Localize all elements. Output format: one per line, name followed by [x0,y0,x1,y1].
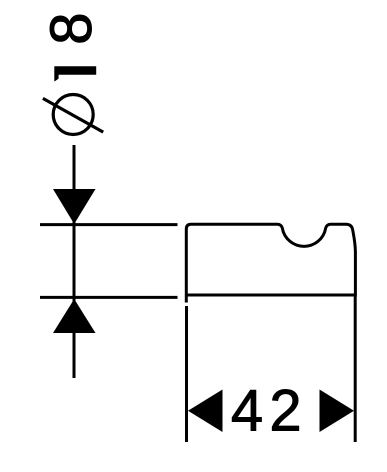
hook body outline [186,224,355,301]
arrow right [320,390,355,433]
diameter symbol slash [43,98,103,132]
vertical dimension line [73,145,76,378]
extension line left of 42 dim [185,306,188,442]
arrow up [53,299,96,333]
svg-text:2: 2 [269,379,301,444]
diameter symbol circle [53,95,93,135]
dimension text digit 1 (rotated, drawn) [54,66,96,81]
svg-text:4: 4 [231,379,263,444]
arrow down [53,189,96,224]
svg-text:8: 8 [39,12,104,44]
extension line bottom [40,296,178,299]
extension line top [40,223,178,226]
extension line right of 42 dim [354,296,357,442]
arrow left [188,390,223,433]
